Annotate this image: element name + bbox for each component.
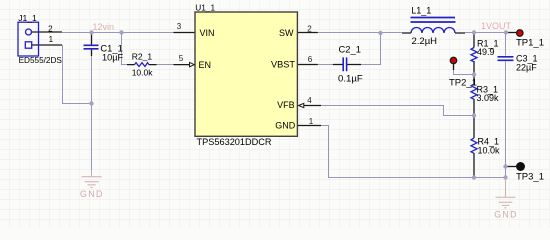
svg-text:TP3_1: TP3_1 [516, 171, 544, 182]
svg-text:0.1µF: 0.1µF [338, 74, 363, 85]
svg-text:5: 5 [179, 54, 184, 63]
svg-text:GND: GND [80, 189, 104, 199]
svg-text:R2_1: R2_1 [132, 51, 153, 61]
svg-text:ED555/2DS: ED555/2DS [19, 56, 63, 65]
svg-text:10.0k: 10.0k [132, 67, 154, 77]
svg-text:U1_1: U1_1 [195, 3, 215, 13]
svg-text:J1_1: J1_1 [18, 13, 37, 23]
svg-text:10.0k: 10.0k [478, 145, 501, 155]
svg-text:22µF: 22µF [516, 63, 537, 73]
svg-text:6: 6 [308, 55, 313, 64]
svg-text:1: 1 [49, 35, 54, 44]
svg-text:1: 1 [309, 117, 314, 126]
svg-text:TP2_1: TP2_1 [449, 78, 477, 89]
svg-text:4: 4 [307, 96, 312, 105]
svg-text:3.09k: 3.09k [477, 93, 500, 103]
svg-text:VIN: VIN [200, 28, 215, 38]
svg-text:C2_1: C2_1 [339, 43, 361, 54]
svg-text:L1_1: L1_1 [411, 6, 431, 16]
svg-text:GND: GND [275, 121, 296, 131]
svg-text:TP1_1: TP1_1 [516, 38, 544, 49]
svg-text:3: 3 [177, 22, 182, 31]
svg-text:2: 2 [48, 24, 53, 33]
svg-text:SW: SW [279, 28, 294, 38]
svg-text:GND: GND [494, 210, 518, 220]
svg-text:12vin: 12vin [93, 22, 115, 32]
svg-text:TPS563201DDCR: TPS563201DDCR [197, 137, 272, 147]
svg-text:10µF: 10µF [102, 52, 124, 62]
svg-text:VBST: VBST [271, 59, 295, 69]
svg-text:VFB: VFB [277, 100, 295, 110]
svg-text:49.9: 49.9 [477, 47, 495, 57]
svg-text:2: 2 [307, 25, 312, 34]
svg-text:1VOUT: 1VOUT [481, 21, 512, 31]
svg-text:EN: EN [199, 60, 212, 70]
svg-text:2.2µH: 2.2µH [412, 36, 438, 47]
